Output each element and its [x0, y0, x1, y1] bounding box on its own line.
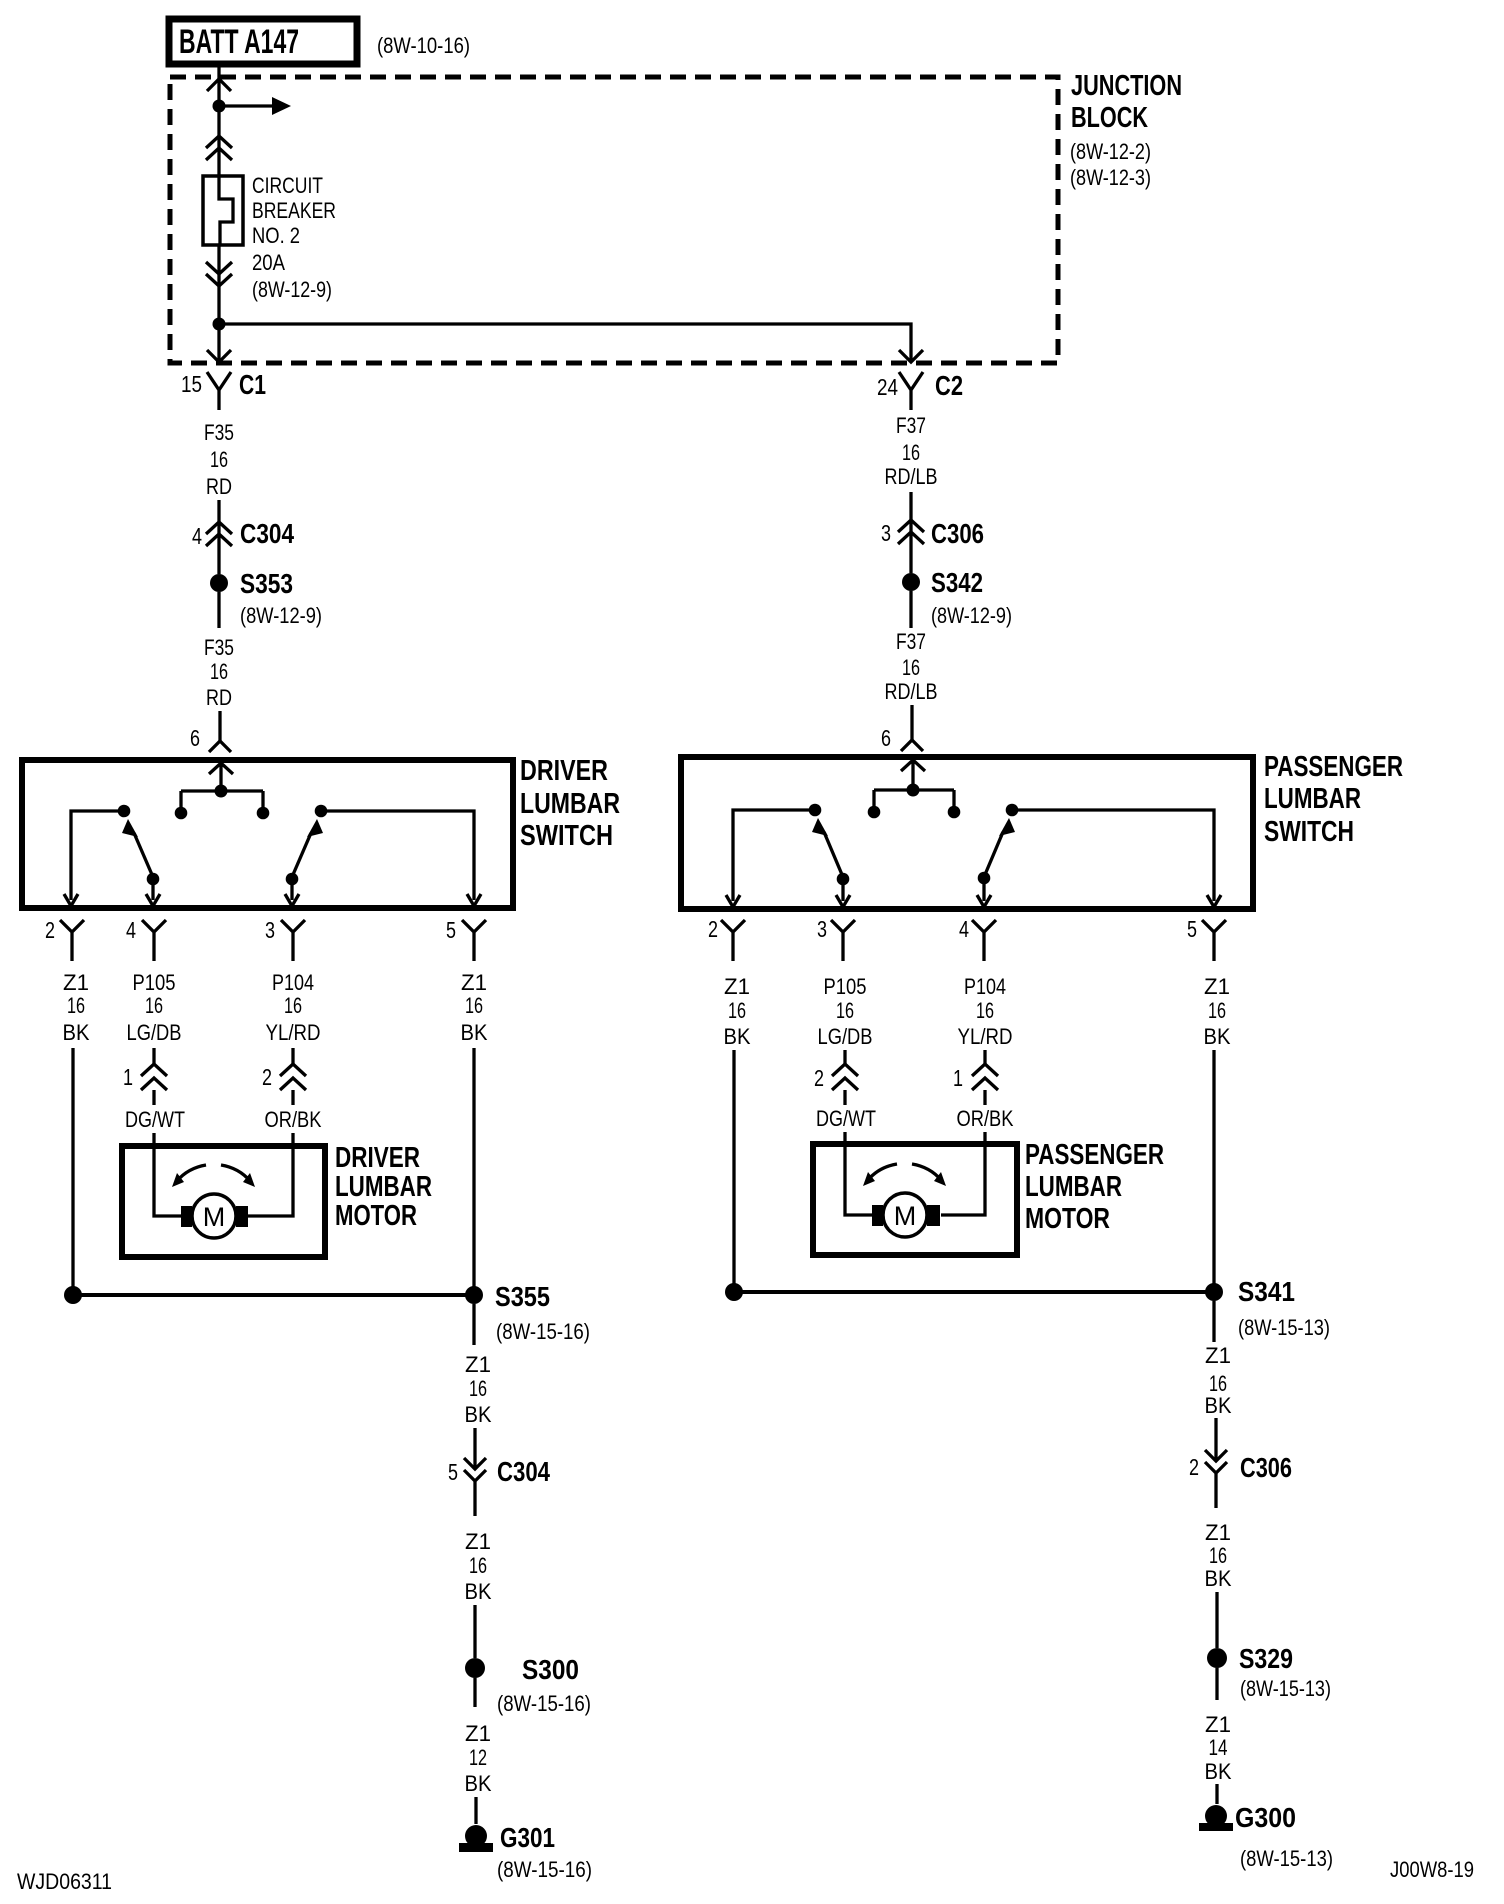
svg-text:5: 5: [448, 1459, 458, 1485]
junction block title: [1070, 70, 1182, 190]
rotation arrows driver motor: [172, 1165, 255, 1187]
connector pin 4 driver switch: [126, 917, 166, 961]
wire node to C2 drop: [219, 324, 911, 361]
driver switch right arm: [292, 819, 323, 877]
svg-text:DG/WT: DG/WT: [125, 1107, 185, 1132]
svg-text:J00W8-19: J00W8-19: [1390, 1857, 1474, 1882]
passenger lumbar switch box: [681, 757, 1253, 909]
wire P104 16 YL/RD label: [266, 970, 321, 1045]
wire Z1 14 BK label: [1205, 1712, 1232, 1784]
svg-text:NO. 2: NO. 2: [252, 223, 300, 248]
wire below S355: [472, 1304, 475, 1345]
passenger switch arm pivot pin 4: [978, 872, 991, 885]
wire breaker to node: [217, 245, 220, 362]
wire below connector 2: [291, 1090, 294, 1105]
circuit breaker no.2 20A: [203, 176, 243, 245]
svg-text:C1: C1: [239, 369, 266, 400]
connector pin 6 driver switch: [190, 725, 231, 752]
node passenger switch common: [868, 784, 961, 819]
driver lumbar motor box: [122, 1146, 325, 1257]
wire P105 16 LG/DB label: [127, 970, 182, 1045]
svg-text:SWITCH: SWITCH: [1264, 816, 1354, 848]
arrow pin 2 at box edge: [64, 894, 78, 906]
passenger switch arm pivot pin 3: [837, 873, 850, 886]
wire Z1 16 BK label (driver pin2): [63, 970, 90, 1045]
splice S353: [210, 568, 322, 628]
svg-text:(8W-15-16): (8W-15-16): [497, 1691, 591, 1716]
svg-text:Z1: Z1: [1205, 1343, 1231, 1368]
svg-text:P105: P105: [133, 970, 176, 995]
svg-text:(8W-12-9): (8W-12-9): [931, 603, 1012, 628]
wire Z1 16 BK label (passenger pin5): [1204, 974, 1231, 1049]
wire to C304: [217, 500, 220, 574]
arrow pin 3 at box edge: [836, 895, 850, 907]
entry arrow passenger switch pin 6: [901, 760, 925, 784]
wire Z1 16 BK label: [465, 1529, 492, 1604]
wire contact to pin 2: [733, 810, 815, 901]
wire OR/BK into passenger motor: [941, 1132, 985, 1215]
svg-text:DG/WT: DG/WT: [816, 1106, 876, 1131]
wire to C304 pin 5: [473, 1428, 476, 1469]
wire below S353: [217, 592, 220, 628]
wire to S300: [473, 1605, 476, 1658]
svg-text:16: 16: [469, 1376, 487, 1401]
svg-text:3: 3: [881, 520, 891, 546]
arrow into junction block: [207, 79, 231, 91]
svg-text:5: 5: [446, 917, 456, 943]
svg-text:Z1: Z1: [1205, 1520, 1231, 1545]
svg-text:DRIVER: DRIVER: [335, 1142, 420, 1174]
node driver switch common: [175, 785, 270, 820]
arrow pin 2 at box edge: [726, 895, 740, 907]
node breaker output: [213, 318, 226, 331]
svg-text:(8W-15-13): (8W-15-13): [1238, 1315, 1330, 1340]
splice S342: [902, 567, 1012, 628]
arrow pin 3 at box edge: [285, 894, 299, 906]
wire Z1 16 BK label: [465, 1352, 492, 1427]
svg-text:S300: S300: [522, 1654, 579, 1685]
svg-text:(8W-10-16): (8W-10-16): [377, 33, 470, 58]
svg-text:YL/RD: YL/RD: [266, 1020, 321, 1045]
svg-text:Z1: Z1: [465, 1721, 491, 1746]
svg-text:F37: F37: [896, 629, 926, 654]
svg-text:LG/DB: LG/DB: [818, 1024, 873, 1049]
svg-text:2: 2: [708, 916, 718, 942]
svg-text:16: 16: [210, 659, 228, 684]
connector 2 driver motor: [262, 1064, 306, 1090]
wire to driver switch: [218, 711, 221, 741]
driver switch left throw contact: [118, 805, 131, 818]
svg-text:JUNCTION: JUNCTION: [1071, 70, 1182, 102]
wire to C306 pin 2: [1214, 1418, 1217, 1461]
driver switch left arm: [122, 819, 153, 877]
svg-text:BLOCK: BLOCK: [1071, 102, 1148, 134]
wire Z1 16 BK label: [1205, 1520, 1232, 1591]
svg-text:12: 12: [469, 1745, 487, 1770]
connector 1 passenger motor: [953, 1064, 998, 1091]
svg-text:BK: BK: [461, 1020, 488, 1045]
svg-text:S355: S355: [495, 1281, 550, 1312]
svg-text:S341: S341: [1238, 1276, 1295, 1307]
arrow other circuits (right): [219, 97, 291, 115]
motor M2 passenger lumbar: [872, 1193, 940, 1237]
wire pivot to pin 3: [841, 879, 844, 901]
wire F35 16 RD label: [204, 635, 234, 710]
connector pin 4 passenger switch: [959, 916, 996, 961]
wire driver pin4 to connector: [152, 1048, 155, 1064]
svg-text:BK: BK: [1205, 1566, 1232, 1591]
splice S329: [1207, 1643, 1331, 1701]
wire DG/WT into motor: [154, 1133, 181, 1216]
svg-text:OR/BK: OR/BK: [957, 1106, 1014, 1131]
svg-text:(8W-15-16): (8W-15-16): [497, 1857, 592, 1882]
wire passenger pin5 to splice S341: [1212, 1050, 1215, 1292]
svg-text:1: 1: [953, 1065, 963, 1091]
splice S355: [64, 1281, 590, 1344]
wire to ground G300: [1215, 1784, 1218, 1804]
svg-text:Z1: Z1: [724, 974, 750, 999]
svg-text:2: 2: [1189, 1454, 1199, 1480]
svg-text:RD/LB: RD/LB: [885, 464, 938, 489]
arrow pin 4 at box edge: [146, 894, 160, 906]
svg-text:MOTOR: MOTOR: [1025, 1203, 1110, 1235]
arrow at C2: [899, 350, 923, 362]
svg-text:5: 5: [1187, 916, 1197, 942]
svg-text:F37: F37: [896, 413, 926, 438]
svg-text:16: 16: [67, 993, 85, 1018]
svg-text:Z1: Z1: [63, 970, 89, 995]
wire P105 16 LG/DB label: [818, 974, 873, 1049]
wire OR/BK into motor: [248, 1133, 293, 1216]
wire battery to circuit breaker: [217, 65, 220, 176]
connector pin 2 driver switch: [45, 917, 84, 961]
splice S341: [725, 1276, 1330, 1340]
wire P104 16 YL/RD label: [958, 974, 1013, 1049]
wire F35 16 RD label: [204, 420, 234, 499]
svg-text:2: 2: [814, 1065, 824, 1091]
passenger switch right arm: [984, 818, 1015, 877]
svg-text:BK: BK: [465, 1579, 492, 1604]
svg-text:16: 16: [976, 998, 994, 1023]
connector pin 5 driver switch: [446, 917, 486, 961]
svg-text:BATT A147: BATT A147: [179, 23, 299, 61]
wire to C306: [909, 492, 912, 573]
svg-text:F35: F35: [204, 635, 234, 660]
svg-text:16: 16: [728, 998, 746, 1023]
svg-text:16: 16: [284, 993, 302, 1018]
svg-text:LG/DB: LG/DB: [127, 1020, 182, 1045]
svg-text:(8W-12-9): (8W-12-9): [252, 277, 332, 302]
svg-text:16: 16: [469, 1553, 487, 1578]
wire contact to pin 2: [71, 811, 124, 900]
passenger switch left arm: [812, 818, 843, 877]
svg-text:BK: BK: [1204, 1024, 1231, 1049]
svg-text:S329: S329: [1239, 1643, 1293, 1674]
svg-text:4: 4: [126, 917, 136, 943]
svg-text:3: 3: [265, 917, 275, 943]
wire passenger pin2 to splice S341: [732, 1050, 735, 1292]
wire below connector 1: [152, 1090, 155, 1105]
driver switch arm pivot pin 4: [147, 873, 160, 886]
svg-text:LUMBAR: LUMBAR: [1264, 783, 1361, 815]
svg-text:G300: G300: [1235, 1802, 1296, 1833]
driver switch title: [520, 755, 620, 852]
svg-text:C306: C306: [931, 518, 984, 549]
wire below S300: [473, 1678, 476, 1707]
svg-text:S353: S353: [240, 568, 293, 599]
connector pin 2 passenger switch: [708, 916, 745, 961]
svg-text:BK: BK: [63, 1020, 90, 1045]
wire passenger pin3 to connector: [843, 1050, 846, 1064]
rotation arrows passenger motor: [863, 1164, 946, 1186]
svg-text:4: 4: [192, 523, 202, 549]
wire contact to pin 5: [1012, 810, 1214, 901]
svg-text:YL/RD: YL/RD: [958, 1024, 1013, 1049]
passenger lumbar motor box: [813, 1144, 1017, 1255]
svg-text:RD: RD: [206, 474, 232, 499]
passenger switch right throw contact: [1006, 804, 1019, 817]
wire to passenger switch: [910, 705, 913, 740]
svg-text:RD: RD: [206, 685, 232, 710]
wire below S342: [909, 591, 912, 628]
wire F37 16 RD/LB label: [885, 413, 938, 489]
wire to ground G301: [474, 1797, 477, 1824]
svg-text:SWITCH: SWITCH: [520, 820, 613, 852]
circuit breaker label: [252, 173, 336, 302]
svg-text:16: 16: [465, 993, 483, 1018]
svg-text:LUMBAR: LUMBAR: [335, 1171, 432, 1203]
svg-text:16: 16: [145, 993, 163, 1018]
arrow at C1: [207, 350, 231, 362]
connector C304 pin 4: [192, 518, 294, 549]
svg-text:BK: BK: [465, 1771, 492, 1796]
arrow pin 4 at box edge: [977, 895, 991, 907]
svg-text:(8W-12-2): (8W-12-2): [1070, 139, 1151, 164]
wire pivot to pin 4: [151, 879, 154, 900]
wire to S329: [1215, 1592, 1218, 1648]
svg-text:BK: BK: [724, 1024, 751, 1049]
junction block dashed boundary: [170, 77, 1058, 363]
svg-text:3: 3: [817, 916, 827, 942]
svg-text:2: 2: [262, 1064, 272, 1090]
wire DG/WT into passenger motor: [845, 1132, 872, 1215]
svg-text:BREAKER: BREAKER: [252, 198, 336, 223]
driver motor title: [335, 1142, 432, 1232]
wire below connector 2: [843, 1090, 846, 1105]
svg-text:(8W-15-13): (8W-15-13): [1240, 1846, 1333, 1871]
svg-text:PASSENGER: PASSENGER: [1264, 751, 1403, 783]
driver lumbar switch box: [22, 760, 513, 908]
connector C304 pin 5: [448, 1456, 550, 1516]
wire driver pin2 to splice S355: [71, 1048, 74, 1295]
connector pin 5 passenger switch: [1187, 916, 1226, 961]
svg-text:24: 24: [877, 374, 898, 400]
svg-text:LUMBAR: LUMBAR: [1025, 1171, 1122, 1203]
svg-text:F35: F35: [204, 420, 234, 445]
svg-text:20A: 20A: [252, 250, 285, 275]
svg-text:LUMBAR: LUMBAR: [520, 788, 620, 820]
svg-text:RD/LB: RD/LB: [885, 679, 938, 704]
svg-text:M: M: [203, 1202, 226, 1232]
connector C306 pin 2: [1189, 1450, 1292, 1508]
wire Z1 16 BK label: [1205, 1343, 1232, 1418]
wire driver pin3 to connector: [291, 1048, 294, 1064]
motor M1 driver lumbar: [181, 1194, 248, 1238]
svg-text:14: 14: [1209, 1735, 1228, 1760]
connector chevrons above breaker: [206, 136, 232, 160]
svg-text:(8W-15-16): (8W-15-16): [496, 1319, 590, 1344]
wire below S341: [1212, 1301, 1215, 1342]
svg-text:Z1: Z1: [465, 1352, 491, 1377]
svg-text:1: 1: [123, 1064, 133, 1090]
svg-text:MOTOR: MOTOR: [335, 1200, 417, 1232]
driver switch right throw contact: [315, 805, 328, 818]
wire passenger pin4 to connector: [983, 1050, 986, 1064]
svg-text:16: 16: [1208, 998, 1226, 1023]
svg-text:S342: S342: [931, 567, 983, 598]
svg-text:BK: BK: [1205, 1759, 1232, 1784]
svg-text:15: 15: [181, 371, 202, 397]
node battery feed junction: [213, 100, 226, 113]
svg-text:P105: P105: [824, 974, 867, 999]
svg-text:(8W-15-13): (8W-15-13): [1240, 1676, 1331, 1701]
passenger switch left throw contact: [809, 804, 822, 817]
ground G300: [1199, 1802, 1333, 1871]
wire Z1 12 BK label: [465, 1721, 492, 1796]
svg-text:CIRCUIT: CIRCUIT: [252, 173, 323, 198]
svg-text:Z1: Z1: [465, 1529, 491, 1554]
connector chevrons below breaker: [206, 262, 232, 286]
svg-text:4: 4: [959, 916, 969, 942]
splice S300: [465, 1654, 591, 1716]
svg-text:16: 16: [836, 998, 854, 1023]
svg-text:16: 16: [902, 440, 920, 465]
svg-text:2: 2: [45, 917, 55, 943]
wire below S329: [1215, 1668, 1218, 1700]
svg-text:M: M: [894, 1201, 917, 1231]
svg-text:C304: C304: [497, 1456, 550, 1487]
connector C2 pin 24: [877, 370, 963, 410]
passenger switch title: [1264, 751, 1403, 848]
wire Z1 16 BK label (driver pin5): [461, 970, 488, 1045]
svg-text:16: 16: [902, 655, 920, 680]
entry arrow driver switch pin 6: [209, 763, 233, 786]
svg-text:OR/BK: OR/BK: [265, 1107, 322, 1132]
svg-text:16: 16: [1209, 1543, 1227, 1568]
wire pivot to pin 4: [982, 878, 985, 901]
arrow pin 5 at box edge: [1207, 895, 1221, 907]
svg-text:P104: P104: [964, 974, 1006, 999]
arrow pin 5 at box edge: [467, 894, 481, 906]
svg-text:BK: BK: [1205, 1393, 1232, 1418]
svg-text:C2: C2: [935, 370, 963, 401]
connector C306 pin 3: [881, 518, 984, 549]
wire F37 16 RD/LB label: [885, 629, 938, 704]
wire Z1 16 BK label (passenger pin2): [724, 974, 751, 1049]
svg-text:16: 16: [210, 447, 228, 472]
svg-text:(8W-12-9): (8W-12-9): [240, 603, 322, 628]
svg-text:Z1: Z1: [1204, 974, 1230, 999]
svg-text:6: 6: [881, 725, 891, 751]
svg-text:P104: P104: [272, 970, 314, 995]
svg-text:Z1: Z1: [461, 970, 487, 995]
driver switch arm pivot pin 3: [286, 873, 299, 886]
battery feed box BATT A147: [169, 19, 357, 64]
svg-text:DRIVER: DRIVER: [520, 755, 608, 787]
connector pin 6 passenger switch: [881, 725, 923, 751]
connector 1 driver motor: [123, 1064, 167, 1090]
wire below connector 1: [983, 1090, 986, 1105]
passenger motor title: [1025, 1139, 1164, 1235]
connector pin 3 passenger switch: [817, 916, 855, 961]
svg-text:6: 6: [190, 725, 200, 751]
svg-text:C306: C306: [1240, 1452, 1292, 1483]
svg-text:BK: BK: [465, 1402, 492, 1427]
svg-text:(8W-12-3): (8W-12-3): [1070, 165, 1151, 190]
connector C1 pin 15: [181, 369, 266, 410]
svg-text:C304: C304: [240, 518, 294, 549]
svg-text:Z1: Z1: [1205, 1712, 1231, 1737]
ground G301: [459, 1822, 592, 1882]
svg-text:PASSENGER: PASSENGER: [1025, 1139, 1164, 1171]
wire driver pin5 to splice S355: [472, 1048, 475, 1295]
connector pin 3 driver switch: [265, 917, 305, 961]
connector 2 passenger motor: [814, 1064, 858, 1091]
svg-text:G301: G301: [500, 1822, 555, 1853]
wire contact to pin 5: [321, 811, 474, 900]
wire pivot to pin 3: [290, 879, 293, 900]
svg-text:WJD06311: WJD06311: [17, 1869, 112, 1894]
